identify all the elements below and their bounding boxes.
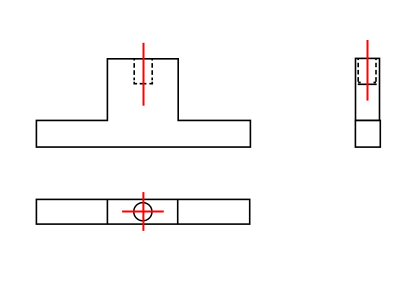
- centerline (front view, red): [143, 43, 145, 106]
- hidden hole right edge (front view, dashed): [151, 59, 153, 80]
- hole circle (top view): [134, 203, 152, 221]
- centerline (side view, red): [367, 40, 369, 101]
- top view right divider: [177, 199, 179, 224]
- side view upper rectangle: [356, 58, 380, 120]
- top view outer rectangle: [36, 199, 249, 224]
- centerline vertical (top view, red): [142, 192, 144, 231]
- hidden hole left edge (front view, dashed): [133, 59, 135, 80]
- hidden hole right elbow stub (side view): [374, 81, 377, 83]
- centerline horizontal (top view, red): [122, 211, 164, 213]
- side view lower rectangle: [355, 120, 380, 147]
- hidden hole left edge (side view, dashed): [357, 58, 359, 82]
- hidden hole bottom (front view, dashed): [134, 82, 153, 84]
- hidden hole right edge (side view, dashed): [375, 58, 377, 82]
- hidden hole left elbow stub (side view): [358, 81, 361, 83]
- front view T-block outline: [36, 59, 250, 147]
- top view left divider: [106, 199, 108, 224]
- hole bottom line (side view, solid): [358, 83, 377, 85]
